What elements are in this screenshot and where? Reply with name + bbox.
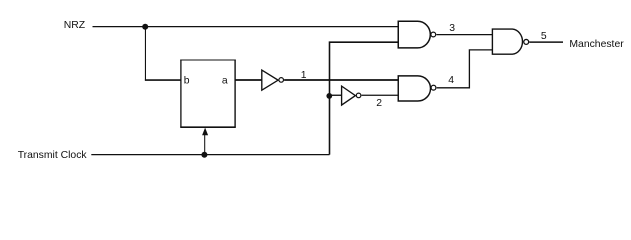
wire NRZ branch down (vertical): [144, 27, 146, 81]
wire clock vertical riser to top NAND lower input: [330, 42, 399, 154]
wire node 3 line to final NAND upper input: [436, 34, 492, 36]
flip-flop U1 bottom edge: [180, 126, 235, 128]
svg-text:NRZ: NRZ: [64, 20, 86, 31]
nand gate U4 top: [398, 21, 430, 48]
flip-flop U1 left edge: [180, 60, 182, 128]
svg-text:2: 2: [376, 98, 382, 109]
junction clock tap to inverter U3: [326, 93, 332, 99]
wire node 4 line to final NAND lower input: [437, 50, 493, 88]
arrowhead into latch: [202, 128, 208, 136]
svg-text:5: 5: [541, 31, 547, 42]
wire clock horizontal: [91, 154, 329, 156]
svg-text:a: a: [222, 76, 228, 87]
wire NRZ branch to latch input b: [145, 79, 181, 81]
svg-text:3: 3: [449, 23, 455, 34]
svg-text:4: 4: [448, 75, 454, 86]
wire NRZ horizontal to top NAND input: [93, 26, 399, 28]
wire node 1 line to bottom NAND upper input: [284, 79, 398, 81]
nand gate U5 bottom: [398, 76, 430, 101]
flip-flop U1 top edge: [180, 59, 235, 61]
svg-text:1: 1: [301, 70, 307, 81]
wire node 5 output line: [529, 41, 563, 43]
junction on NRZ line: [142, 24, 148, 30]
wire clock tap to inverter U3: [330, 94, 342, 96]
flip-flop U1 right edge: [234, 60, 236, 128]
svg-text:Manchester: Manchester: [569, 39, 624, 50]
nand gate U6 output: [492, 29, 522, 54]
svg-text:Transmit Clock: Transmit Clock: [18, 150, 88, 161]
inverter U3: [342, 86, 356, 105]
inverter U2: [262, 70, 278, 90]
wire node 2 line to bottom NAND lower input: [362, 94, 399, 96]
junction on clock line: [201, 152, 207, 158]
wire latch output a to inverter: [235, 79, 262, 81]
wire clock to latch clock pin: [204, 135, 206, 155]
svg-text:b: b: [184, 76, 190, 87]
